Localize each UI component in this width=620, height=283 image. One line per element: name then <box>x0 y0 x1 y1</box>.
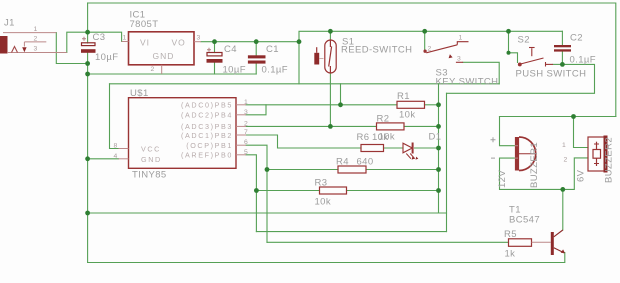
svg-text:(AREF)PB0: (AREF)PB0 <box>181 151 233 160</box>
wire T1 collector riser <box>562 189 564 230</box>
wire S1 top stub <box>329 31 331 40</box>
svg-text:2: 2 <box>564 157 568 164</box>
wire S2 contact to C2 <box>553 63 562 65</box>
capacitor C4 <box>207 48 223 63</box>
svg-text:R2: R2 <box>377 114 390 125</box>
wire pin5 column <box>246 155 256 232</box>
wire R4 left <box>267 169 338 171</box>
svg-text:BUZZER2: BUZZER2 <box>604 137 615 183</box>
svg-text:2: 2 <box>244 120 248 127</box>
wire S2 drop <box>509 31 518 62</box>
svg-text:VO: VO <box>172 38 186 48</box>
wire pin3 jog <box>246 105 266 115</box>
wire S3 sense column <box>438 84 440 213</box>
wire VCC drop to R1 row <box>340 84 342 105</box>
svg-text:12V: 12V <box>497 170 508 188</box>
wire VCC down to tiny pin8 <box>110 84 119 149</box>
capacitor C2 <box>554 45 571 52</box>
svg-text:7: 7 <box>244 129 248 136</box>
wire pin7 jog to R6 <box>246 135 361 148</box>
svg-text:2: 2 <box>34 36 38 43</box>
wire gnd mid rail <box>88 212 447 214</box>
svg-text:VCC: VCC <box>141 145 161 154</box>
wire gnd riser right <box>446 93 448 231</box>
key switch S3 <box>424 42 469 63</box>
wire R3 right <box>347 190 439 192</box>
wire VCC column from 5V <box>298 42 300 84</box>
svg-text:4: 4 <box>114 153 118 160</box>
wire buzzer1 minus drop <box>500 158 563 189</box>
capacitor C1 <box>248 55 266 63</box>
svg-text:5: 5 <box>244 149 248 156</box>
svg-text:1: 1 <box>244 99 248 106</box>
svg-text:D1: D1 <box>429 132 442 143</box>
svg-text:640: 640 <box>357 157 374 168</box>
svg-text:C4: C4 <box>224 44 237 55</box>
wire base run to R5 <box>267 241 509 243</box>
connector J1 <box>1 33 67 53</box>
wire R2 right <box>404 125 439 127</box>
svg-text:1: 1 <box>459 35 463 42</box>
svg-text:10µF: 10µF <box>95 52 118 63</box>
wire S1 drop <box>329 73 331 126</box>
svg-text:R1: R1 <box>397 91 410 102</box>
svg-text:1: 1 <box>562 142 566 149</box>
svg-text:GND: GND <box>141 155 162 164</box>
svg-text:S2: S2 <box>518 35 530 46</box>
LED D1 <box>403 143 418 160</box>
svg-text:2: 2 <box>151 66 155 73</box>
svg-text:BUZZER1: BUZZER1 <box>529 142 540 188</box>
svg-text:U$1: U$1 <box>130 88 149 99</box>
wire GND column x=87.6 <box>87 53 89 263</box>
wire buzzer1 plus drop <box>500 117 515 146</box>
magnet symbol <box>314 47 323 64</box>
wire S3 sense <box>463 62 499 84</box>
svg-text:1: 1 <box>34 26 38 33</box>
wire J1 sleeve riser <box>67 32 122 52</box>
wire buzzer2 pin2 <box>563 158 588 190</box>
svg-text:R4: R4 <box>336 157 349 168</box>
push switch S2 <box>518 48 553 67</box>
wire R1 right <box>425 104 439 106</box>
wire row pin2 to R2 <box>246 125 377 127</box>
svg-text:C2: C2 <box>570 33 583 44</box>
wire 5V bus VO to corner <box>201 41 299 43</box>
svg-text:(OCP)PB1: (OCP)PB1 <box>186 141 233 150</box>
wire row pin1 to R1 <box>246 104 397 106</box>
svg-text:J1: J1 <box>4 18 15 29</box>
svg-text:C1: C1 <box>266 44 279 55</box>
svg-text:6: 6 <box>244 139 248 146</box>
svg-text:(ADC2)PB4: (ADC2)PB4 <box>181 111 233 120</box>
svg-text:8: 8 <box>114 143 118 150</box>
resistor R1 <box>397 101 425 108</box>
svg-text:0.1µF: 0.1µF <box>262 65 288 76</box>
resistor R4 <box>338 166 366 173</box>
svg-text:0.1µF: 0.1µF <box>570 55 596 66</box>
svg-text:2: 2 <box>428 46 432 53</box>
resistor R3 <box>320 187 347 194</box>
IC1 7805T <box>122 32 201 74</box>
svg-text:TINY85: TINY85 <box>132 170 167 181</box>
svg-text:REED-SWITCH: REED-SWITCH <box>341 45 412 56</box>
wire pin5 bottom run <box>256 231 446 233</box>
svg-text:VI: VI <box>140 38 150 48</box>
resistor R2 <box>377 123 405 130</box>
reed switch S1 <box>325 40 336 73</box>
wire S3 pin2 drop <box>424 31 426 51</box>
svg-text:C3: C3 <box>93 32 106 43</box>
wire GND bottom rail <box>88 253 565 263</box>
transistor T1 BC547 <box>551 230 565 255</box>
svg-text:(ADC1)PB2: (ADC1)PB2 <box>181 131 233 140</box>
wire top +9V bus <box>88 3 616 117</box>
svg-text:GND: GND <box>153 51 175 61</box>
wire buzzer top feed <box>500 116 616 118</box>
svg-text:10k: 10k <box>372 132 389 143</box>
buzzer BUZZER1 <box>515 137 536 171</box>
svg-text:3: 3 <box>34 46 38 53</box>
wire J1 tip to C3 column <box>56 33 87 64</box>
svg-text:R5: R5 <box>504 229 517 240</box>
resistor R5 <box>509 239 551 247</box>
wire gnd top run to C2 <box>447 64 595 93</box>
svg-text:R3: R3 <box>315 178 328 189</box>
wire D1 right <box>415 147 439 149</box>
svg-text:3: 3 <box>244 109 248 116</box>
svg-text:7805T: 7805T <box>130 19 159 30</box>
IC U$1 TINY85 <box>119 98 247 169</box>
svg-text:3: 3 <box>457 56 461 63</box>
svg-text:PUSH SWITCH: PUSH SWITCH <box>516 69 587 80</box>
wire 5V jog up to switch bus <box>299 31 562 41</box>
wire GND bus under regulator <box>88 73 257 75</box>
svg-text:R6: R6 <box>357 132 370 143</box>
wire C2 top stub <box>561 31 563 45</box>
svg-text:10k: 10k <box>315 197 332 208</box>
svg-text:10k: 10k <box>399 110 416 121</box>
wire R4 right <box>366 169 439 171</box>
node junction dots <box>85 29 576 216</box>
svg-text:KEY SWITCH: KEY SWITCH <box>436 77 499 88</box>
svg-text:(ADC0)PB5: (ADC0)PB5 <box>181 101 233 110</box>
wire R6 to D1 <box>384 147 404 149</box>
wire R3 left <box>256 190 319 192</box>
wire +9V column x=87.6 top <box>87 3 89 43</box>
resistor R6 <box>361 145 384 152</box>
svg-text:10µF: 10µF <box>223 65 246 76</box>
wire tiny GND pin4 <box>88 158 119 160</box>
svg-text:3: 3 <box>197 35 201 42</box>
wire C4 stubs <box>214 42 216 53</box>
wire VCC horizontal y=83.8 <box>110 83 500 85</box>
wire pin6 column <box>246 145 267 242</box>
wire C1 stubs <box>255 42 257 56</box>
svg-text:BC547: BC547 <box>509 215 540 226</box>
svg-text:1k: 1k <box>505 249 516 260</box>
wire C2 bottom stub <box>561 52 563 65</box>
svg-text:6V: 6V <box>576 169 587 182</box>
buzzer BUZZER2 <box>588 136 608 173</box>
capacitor C3 <box>81 37 96 53</box>
svg-text:1: 1 <box>123 35 127 42</box>
wire buzzer2 pin1 drop <box>574 117 589 148</box>
